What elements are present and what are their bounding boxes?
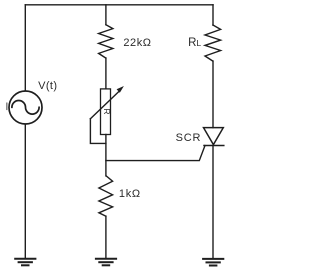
SCR U1: [204, 128, 224, 146]
stray mark left edge: [6, 103, 8, 111]
resistor 1k: [99, 176, 113, 216]
svg-text:1kΩ: 1kΩ: [119, 188, 141, 200]
ground middle: [96, 259, 116, 266]
wire right branch upper: [212, 5, 214, 25]
wire rheostat wiper return: [90, 119, 106, 144]
resistor RL: [205, 25, 221, 61]
svg-text:SCR: SCR: [176, 132, 202, 144]
rheostat R: [90, 86, 124, 135]
resistor 22k: [99, 25, 113, 58]
wire 22k to rheostat: [105, 58, 107, 89]
wire SCR cathode to ground: [212, 146, 214, 259]
svg-text:V(t): V(t): [38, 80, 57, 92]
wire RL to SCR: [212, 61, 214, 128]
wire top bus: [25, 4, 213, 6]
ground right: [203, 259, 223, 266]
wire left branch upper: [24, 5, 26, 91]
wire left branch lower: [24, 124, 26, 258]
wire middle branch upper: [105, 5, 107, 25]
svg-text:R: R: [102, 108, 112, 114]
ground left: [15, 259, 35, 266]
wire gate: [106, 146, 205, 161]
source V(t): [9, 91, 42, 124]
wire rheostat to 1k with gate junction: [105, 135, 107, 176]
svg-text:22kΩ: 22kΩ: [123, 37, 151, 49]
svg-text:RL: RL: [188, 37, 201, 49]
wire 1k to ground: [105, 216, 107, 258]
